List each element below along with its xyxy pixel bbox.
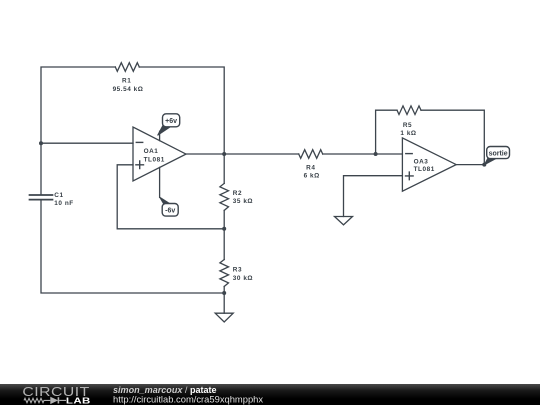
op-amp OA1 triangle: [133, 127, 186, 181]
svg-text:http://circuitlab.com/cra59xqh: http://circuitlab.com/cra59xqhmpphx: [113, 394, 263, 405]
wire R5 right down to output node: [421, 110, 484, 164]
op-amp OA1 V- pin: [159, 167, 161, 197]
svg-text:95.54 kΩ: 95.54 kΩ: [113, 86, 144, 93]
svg-text:35 kΩ: 35 kΩ: [233, 198, 253, 205]
label R5 value: [400, 122, 416, 137]
wire top-left: left rail up and across to R1: [41, 67, 115, 143]
resistor R3 lead top: [223, 229, 225, 260]
label C1 value: [54, 192, 73, 207]
svg-text:R5: R5: [403, 122, 412, 129]
op-amp OA1 plus sign: [136, 161, 144, 169]
resistor R2 lead top: [223, 154, 225, 183]
svg-text:TL081: TL081: [414, 166, 435, 173]
svg-text:C1: C1: [54, 192, 63, 199]
op-amp OA3 triangle: [402, 138, 456, 191]
op-amp OA1 V+ pin: [159, 131, 161, 140]
CircuitLab logo resistor-diode glyph: [24, 397, 66, 403]
label R3 value: [233, 267, 253, 282]
node junction R4 / R5 feedback: [374, 152, 378, 156]
label R2 value: [233, 190, 253, 205]
op-amp OA3 minus sign: [406, 153, 412, 155]
resistor R2 zigzag: [220, 183, 229, 210]
CircuitLab logo wordmark: [22, 385, 90, 405]
node junction R3 bottom / bottom rail / ground: [222, 291, 226, 295]
svg-text:-6v: -6v: [165, 208, 175, 215]
net label sortie: [484, 147, 509, 165]
wire OA1 output to R4: [186, 153, 299, 155]
node junction at left rail / OA1 input: [39, 141, 43, 145]
op-amp OA3 plus sign: [406, 172, 414, 180]
svg-text:+6v: +6v: [165, 118, 177, 125]
resistor R5 zigzag: [397, 106, 421, 115]
wire feedback up from node to R5: [376, 110, 397, 154]
footer title text: [113, 385, 263, 405]
wire OA1 non-inverting input loop down: [117, 165, 224, 229]
wire OA1 inverting input from left rail: [41, 142, 133, 144]
wire C1 bottom down and along bottom to R3 node: [41, 200, 224, 293]
ground symbol at OA3 input: [335, 217, 353, 225]
svg-text:OA1: OA1: [144, 148, 159, 155]
power flag +6v: [158, 114, 180, 136]
footer bar: [0, 384, 540, 405]
node junction R2 bottom / + loop: [222, 227, 226, 231]
svg-text:6 kΩ: 6 kΩ: [304, 173, 320, 180]
svg-text:R4: R4: [306, 165, 315, 172]
resistor R2 lead bottom: [223, 210, 225, 228]
svg-text:30 kΩ: 30 kΩ: [233, 275, 253, 282]
op-amp OA1 minus sign: [136, 141, 142, 143]
resistor R3 zigzag: [220, 260, 229, 287]
svg-text:R1: R1: [122, 78, 131, 85]
resistor R3 lead bottom: [223, 287, 225, 294]
svg-text:R2: R2: [233, 190, 242, 197]
wire OA3 output: [456, 164, 484, 166]
ground symbol under R3: [215, 313, 233, 322]
resistor R1 zigzag: [115, 63, 139, 72]
svg-text:LAB: LAB: [66, 397, 91, 405]
node junction OA3 output / sortie: [482, 163, 486, 167]
power flag -6v: [160, 197, 179, 216]
wire R3 node to ground: [223, 293, 225, 313]
svg-text:sortie: sortie: [489, 151, 508, 158]
wire left rail to C1 top plate: [40, 143, 42, 194]
svg-text:OA3: OA3: [414, 158, 429, 165]
label OA3 name: [414, 158, 435, 173]
svg-text:TL081: TL081: [144, 156, 165, 163]
label R1 value: [113, 78, 144, 93]
svg-text:R3: R3: [233, 267, 242, 274]
svg-text:1 kΩ: 1 kΩ: [400, 130, 416, 137]
label R4 value: [304, 165, 320, 180]
svg-text:10 nF: 10 nF: [54, 200, 73, 207]
resistor R4 zigzag: [299, 150, 323, 159]
node junction OA1 output / R1 / R2: [222, 152, 226, 156]
wire R4 to OA3 inverting input: [323, 153, 403, 155]
wire R1 right to top-right corner down to output node: [139, 67, 224, 154]
label OA1 name: [144, 148, 165, 163]
capacitor C1 plates: [30, 195, 53, 200]
wire OA3 non-inverting input to ground: [344, 176, 403, 217]
